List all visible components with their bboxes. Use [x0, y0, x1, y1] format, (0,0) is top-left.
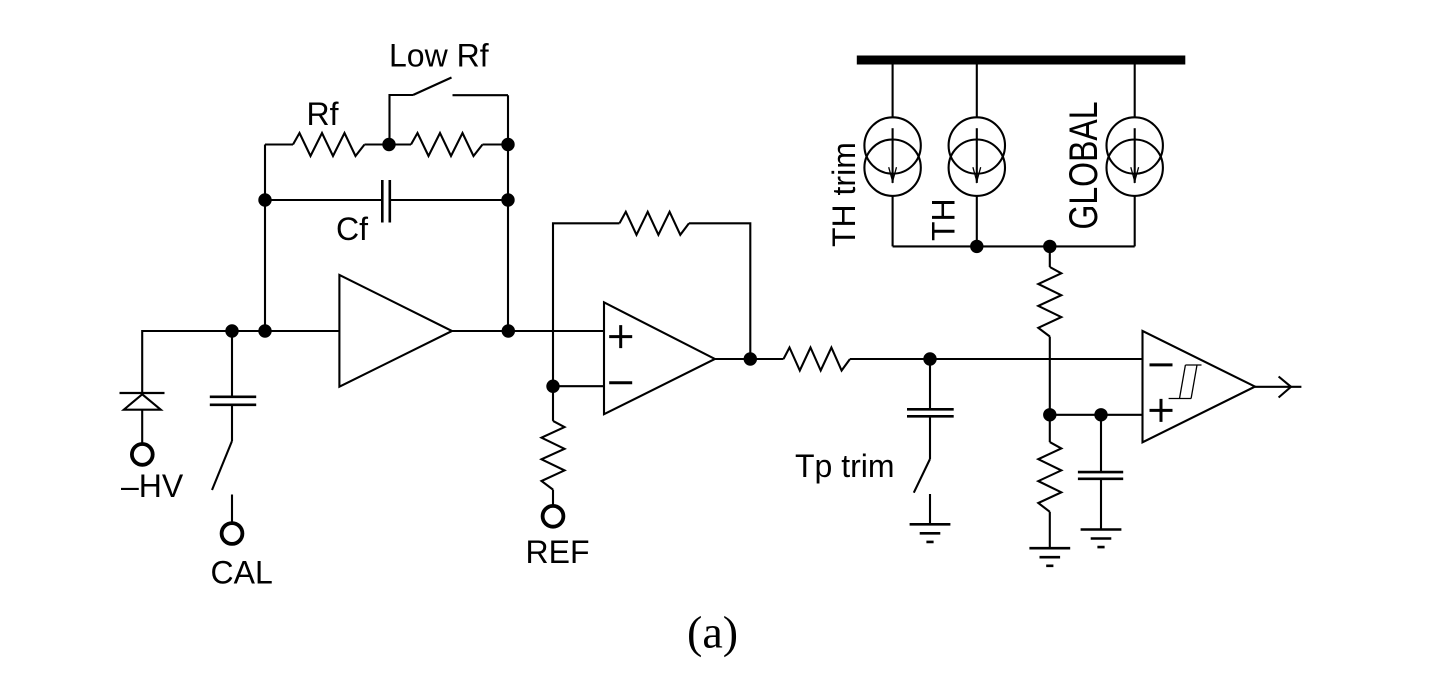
node: U1 output — [502, 324, 515, 337]
svg-text:Cf: Cf — [336, 211, 368, 247]
U3 plus symbol — [1150, 399, 1173, 422]
ground (C-filter) — [1081, 530, 1122, 548]
terminal -HV — [132, 444, 153, 465]
wire: resistor to + node (crosses rail, no dot) — [1049, 337, 1051, 415]
svg-text:GLOBAL: GLOBAL — [1061, 101, 1106, 229]
wire: capacitor to switch — [231, 405, 233, 441]
resistor Rf — [265, 143, 293, 145]
svg-text:CAL: CAL — [211, 555, 273, 591]
capacitor Cf plates — [382, 180, 390, 223]
wire: switch to CAL terminal — [231, 495, 233, 523]
svg-text:(a): (a) — [687, 607, 738, 658]
resistor R-lowRf — [411, 133, 483, 156]
current source I3 (GLOBAL) — [1134, 64, 1136, 117]
wire: U2 feedback loop vertical+top — [553, 223, 620, 386]
U2 plus symbol — [609, 325, 632, 348]
capacitor C-CAL plates — [210, 397, 256, 405]
resistor R-div-bot (vertical) — [1049, 415, 1051, 442]
node: U2 inv input junction — [546, 380, 559, 393]
wire: feedback left vertical — [264, 145, 266, 332]
wire: + input line — [1050, 414, 1143, 416]
node: divider top — [1043, 240, 1056, 253]
capacitor C-Tp plates — [907, 409, 954, 416]
svg-text:TH: TH — [926, 198, 962, 241]
svg-text:Low Rf: Low Rf — [389, 38, 489, 74]
node: Cf right — [501, 193, 514, 206]
node: rail dot 1 — [225, 324, 238, 337]
node: Rf / low-Rf junction — [382, 138, 395, 151]
wire: main input rail — [142, 331, 339, 393]
photodiode D1 cathode bar — [120, 392, 165, 394]
op-amp U1 (preamp) — [339, 275, 452, 387]
wire: sources bottom rail — [893, 245, 1135, 247]
wire: U2 inverting input — [553, 385, 604, 387]
terminal CAL — [222, 523, 243, 544]
wire: U2 out to series resistor — [715, 358, 784, 360]
switch CAL blade — [212, 441, 232, 490]
U2 minus symbol — [609, 381, 632, 384]
svg-text:REF: REF — [526, 534, 590, 570]
node: rail dot 2 — [258, 324, 271, 337]
node: comparator + net — [1043, 408, 1056, 421]
current source I2 (TH) — [976, 64, 978, 117]
wire: series resistor to comparator — [850, 358, 1143, 360]
capacitor C-filter — [1100, 415, 1102, 472]
op-amp U2 — [604, 302, 715, 414]
ground (Tp trim) — [910, 524, 951, 542]
wire: Tp trim branch — [929, 359, 931, 409]
svg-text:Rf: Rf — [307, 96, 339, 132]
resistor R-REF — [542, 421, 565, 490]
wire: REF branch — [552, 386, 554, 421]
node: Cf left — [258, 193, 271, 206]
wire: Cf row right — [390, 199, 508, 201]
wire: Cf row left — [265, 199, 382, 201]
node: TH join — [970, 240, 983, 253]
resistor R-series — [784, 348, 851, 371]
node: Tp trim junction — [923, 352, 936, 365]
terminal REF — [543, 506, 564, 527]
svg-text:Tp trim: Tp trim — [795, 448, 895, 484]
resistor R-fb2 — [620, 212, 690, 235]
photodiode D1 triangle — [124, 394, 161, 409]
current source I1 (TH trim) — [892, 64, 894, 117]
node: U2 output — [744, 352, 757, 365]
power bus bar — [857, 56, 1186, 65]
wire: feedback right vertical — [507, 95, 509, 331]
wire: divider upper — [1049, 246, 1051, 267]
switch Tp trim blade — [914, 459, 930, 493]
ground (divider) — [1029, 548, 1070, 566]
node: right junction row1 — [501, 138, 514, 151]
wire: cap to switch — [929, 416, 931, 459]
U3 hysteresis symbol — [1169, 365, 1202, 399]
svg-text:–HV: –HV — [121, 468, 184, 504]
switch Low Rf (left post, stub, blade, right contact) — [390, 95, 414, 145]
comparator U3 — [1143, 331, 1256, 442]
node: cap junction — [1094, 408, 1107, 421]
svg-text:TH trim: TH trim — [826, 142, 862, 247]
wire: feedback to output node — [689, 223, 750, 359]
resistor R-div-top (vertical) — [1038, 267, 1061, 337]
wire: switch to ground — [929, 494, 931, 524]
wire: diode to -HV terminal — [141, 410, 143, 444]
U3 minus symbol — [1150, 363, 1173, 366]
wire: U1 output to U2 + input — [452, 330, 604, 332]
wire: CAL branch from rail — [231, 331, 233, 397]
wire: U3 output with arrowhead — [1255, 386, 1301, 388]
